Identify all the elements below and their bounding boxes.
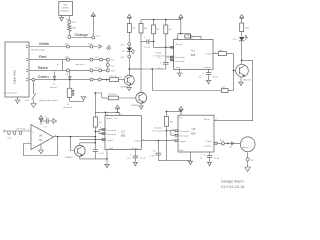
svg-text:555: 555: [191, 131, 196, 135]
svg-text:555: 555: [191, 53, 196, 57]
ground at Q2 emitter: [138, 103, 144, 109]
svg-text:Control: Control: [204, 66, 212, 69]
wire reset node: [165, 34, 174, 63]
wire riser to R7 line: [151, 69, 153, 91]
svg-text:Control: Control: [131, 147, 139, 150]
ground at U1 gnd pin: [177, 69, 183, 76]
svg-text:27 uF: 27 uF: [144, 47, 150, 49]
svg-text:Black: Black: [38, 65, 48, 70]
text delay label: [153, 53, 165, 58]
svg-text:Discharge: Discharge: [106, 133, 117, 136]
title text: [221, 180, 244, 189]
power arrow +V right column: [240, 14, 244, 23]
connector J1 column: [106, 58, 115, 73]
wire R6 down to Q3 base and R7: [233, 54, 235, 91]
svg-text:Reset: Reset: [176, 43, 182, 46]
svg-text:White: White: [39, 41, 50, 46]
svg-text:LM: LM: [39, 135, 42, 138]
junction Q3 base: [233, 70, 235, 72]
svg-text:Control: Control: [204, 145, 212, 148]
resistor R11 (zigzag): [68, 23, 77, 32]
junction on Green near R2: [106, 79, 108, 81]
svg-text:RF (FM cable): RF (FM cable): [31, 50, 45, 52]
wire Q1 collector to Q2 collector: [129, 69, 141, 92]
svg-text:Output: Output: [134, 140, 141, 143]
sensor jack P1: [64, 81, 84, 110]
resistor R12: [240, 23, 250, 37]
ground at sensor jack: [81, 97, 87, 102]
jumper link between Red and Black: [57, 60, 85, 71]
wire Q3 collector to U3 reset: [214, 59, 253, 120]
resistor R5: [93, 93, 102, 127]
svg-text:2N2222: 2N2222: [243, 79, 251, 81]
wire horizontal collector bus y69: [129, 68, 166, 70]
svg-text:R4 10K: R4 10K: [109, 94, 117, 96]
svg-text:U1: U1: [191, 48, 195, 52]
svg-text:Reset: Reset: [204, 118, 210, 121]
wire LED column to Q1: [128, 58, 130, 75]
transistor Q2: [131, 92, 147, 107]
junction on Green: [54, 79, 56, 81]
connector circle on Black: [90, 69, 93, 72]
resistor R8 top: [185, 35, 201, 40]
svg-text:Reset: Reset: [107, 117, 113, 120]
connector below buzzer: [246, 152, 254, 162]
connector circle on Green: [90, 78, 93, 81]
resistor R3: [139, 20, 148, 33]
resistor R9: [164, 111, 181, 161]
IC U1 555: [168, 39, 217, 69]
svg-text:Sensor: Sensor: [50, 86, 57, 89]
svg-text:or: or: [57, 63, 59, 66]
wire Black: [29, 65, 106, 76]
wire U2 trigger from Q4: [79, 138, 105, 140]
svg-text:Regulator: Regulator: [60, 10, 70, 13]
regulator module U5: [59, 2, 73, 18]
power arrow +V at U2: [115, 105, 119, 113]
IC U3 555: [178, 115, 218, 152]
ground right of C4b: [53, 118, 57, 124]
ground at regulator: [59, 17, 71, 21]
wire U3 threshold discharge link: [166, 129, 179, 142]
connector circle on Red: [100, 58, 103, 61]
svg-text:D2 +: D2 +: [233, 39, 238, 41]
capacitor C6b on trigger: [90, 147, 105, 159]
svg-text:Threshold: Threshold: [175, 56, 186, 59]
resistor R5b: [152, 20, 161, 34]
svg-text:Orange: Orange: [75, 32, 89, 37]
wire White: [29, 41, 111, 52]
capacitor C8 at U2 control: [127, 150, 146, 163]
connector J3 cable box: [5, 42, 29, 97]
svg-text:LM286: LM286: [62, 8, 69, 10]
svg-text:(Sensor): (Sensor): [64, 106, 73, 109]
svg-text:741: 741: [38, 139, 43, 142]
op-amp U4 LM741: [28, 123, 57, 150]
wire R5 down trigger node: [94, 92, 96, 149]
op-amp V- arrow: [39, 144, 44, 154]
ground at U3 gnd pin: [188, 152, 194, 165]
net arrow to sensor B: [69, 72, 72, 80]
svg-text:Threshold: Threshold: [106, 129, 117, 132]
svg-text:47 uF: 47 uF: [140, 158, 146, 160]
svg-text:Green: Green: [38, 74, 49, 79]
wire gnd bus right: [158, 159, 190, 161]
capacitor C2: [141, 33, 154, 69]
svg-text:Red: Red: [39, 54, 46, 59]
power arrow +V at R1 column: [127, 14, 131, 23]
svg-text:Threshold: Threshold: [179, 130, 190, 133]
ground at U2 gnd pin: [104, 150, 110, 168]
transistor Q1: [119, 75, 134, 88]
wire R5b down: [153, 34, 166, 48]
wire up to +V: [92, 16, 94, 36]
LED D2: [233, 35, 247, 64]
junction at Q1 collector: [128, 68, 130, 70]
connector circle on Black: [67, 69, 70, 72]
resistor R6b: [164, 20, 173, 34]
resistor R2: [101, 76, 124, 82]
connector circle on White: [67, 45, 70, 48]
ground at Q1 emitter: [126, 85, 132, 91]
wire Red: [29, 54, 106, 60]
svg-text:2N3904: 2N3904: [131, 105, 139, 107]
svg-text:Cable 4062: Cable 4062: [13, 69, 17, 84]
piezo input line: [4, 129, 31, 140]
connector circle J2-2: [121, 55, 131, 59]
svg-text:555: 555: [121, 133, 126, 137]
op-amp V+ loop on U1 top: [176, 33, 194, 40]
connector circle J4-3: [68, 20, 77, 24]
resistor R4: [95, 93, 136, 100]
svg-text:(~5 minutes): (~5 minutes): [153, 55, 165, 58]
capacitor C5 at U1 control: [199, 69, 219, 80]
wire U3 output to buzzer: [214, 140, 240, 148]
wire R7 line: [152, 90, 221, 92]
svg-text:Buzzer: Buzzer: [242, 146, 249, 149]
wire to orange circle: [68, 32, 70, 35]
capacitor C10 at U3 control: [200, 152, 220, 162]
connector circle at orange junction: [92, 36, 101, 39]
svg-text:V3.0 04-20-18: V3.0 04-20-18: [221, 185, 244, 189]
junction rail R6b: [165, 19, 167, 21]
wire op-amp output bus: [54, 136, 97, 138]
resistor R7: [222, 87, 234, 93]
text duration label: [152, 126, 165, 132]
switch SW1 on Green: [4, 81, 58, 107]
junction riser: [151, 68, 153, 70]
svg-text:(LF feed): (LF feed): [17, 129, 26, 131]
svg-text:Garage Alarm: Garage Alarm: [221, 180, 244, 184]
svg-text:Delay: Delay: [155, 53, 161, 55]
svg-text:-1 uF: -1 uF: [99, 153, 105, 155]
ground at U1 control cap: [206, 80, 212, 84]
transistor Q3: [234, 64, 252, 81]
op-amp feedback loop: [24, 136, 59, 156]
IC U2 555: [105, 116, 141, 150]
svg-text:R2 1K: R2 1K: [111, 76, 118, 78]
resistor R6 at U1 output: [213, 50, 234, 56]
ground at Q3 emitter: [238, 77, 244, 86]
power arrow +V at U1 rail: [179, 14, 183, 33]
junction on Green: [69, 79, 71, 81]
ground at U2 control cap: [133, 162, 139, 166]
wire U2 output to U3 trigger: [141, 140, 175, 142]
ground below cable box: [15, 97, 21, 104]
ground arrow below buzzer: [245, 161, 250, 172]
svg-text:(garage door open): (garage door open): [39, 99, 58, 102]
U2 threshold discharge link: [94, 128, 105, 141]
transistor Q4: [65, 145, 85, 158]
connector circle on Orange: [68, 35, 71, 38]
op-amp V+ with capacitor C4b: [39, 116, 53, 129]
svg-text:27 uF: 27 uF: [214, 158, 220, 160]
wire Orange: [71, 32, 92, 38]
power rail above U1: [141, 19, 181, 21]
svg-text:2N3904: 2N3904: [65, 157, 73, 159]
capacitor C4 polarized: [158, 61, 169, 70]
connector circle on Red: [67, 58, 70, 61]
svg-text:Discharge: Discharge: [179, 135, 190, 138]
junction rail R5b: [153, 19, 155, 21]
resistor R1: [127, 24, 136, 33]
connector circle on Black: [99, 69, 102, 72]
svg-text:27 uF: 27 uF: [213, 77, 219, 79]
connector circle J2-1: [121, 43, 131, 47]
LED D1: [122, 46, 135, 56]
wire to Q4 base: [71, 137, 75, 151]
svg-text:Duration: Duration: [154, 126, 163, 129]
connector circle on White: [90, 45, 93, 48]
buzzer B1: [240, 137, 255, 152]
svg-text:Closed switch: Closed switch: [4, 92, 18, 95]
svg-text:Discharge: Discharge: [175, 60, 186, 63]
capacitor C6: [150, 140, 162, 161]
connector circle on Red: [90, 58, 93, 61]
ground at U3 control: [207, 162, 213, 166]
wire Q4 collector: [80, 142, 96, 145]
connector circle on Green: [98, 78, 101, 81]
U2 Vcc loop: [95, 112, 122, 117]
power arrow +V at U3: [179, 107, 183, 116]
regulator output pin wire: [68, 15, 70, 20]
svg-text:Trigger: Trigger: [179, 140, 186, 143]
wire Green: [29, 74, 110, 80]
svg-text:Trigger: Trigger: [106, 139, 113, 142]
connector circle on Green: [32, 78, 35, 81]
power arrow +V at orange: [91, 13, 95, 17]
svg-text:wire links: wire links: [76, 63, 86, 66]
svg-text:-1 uF: -1 uF: [150, 155, 156, 157]
svg-text:Output: Output: [205, 140, 212, 143]
wire R1 to J2-1: [128, 33, 130, 43]
svg-text:Output: Output: [205, 52, 212, 55]
net arrow to sensor A: [50, 72, 57, 89]
svg-text:(~5 seconds): (~5 seconds): [152, 130, 165, 132]
wire Q4 emitter to gnd bus: [80, 156, 107, 159]
wire threshold link U1: [158, 57, 174, 60]
